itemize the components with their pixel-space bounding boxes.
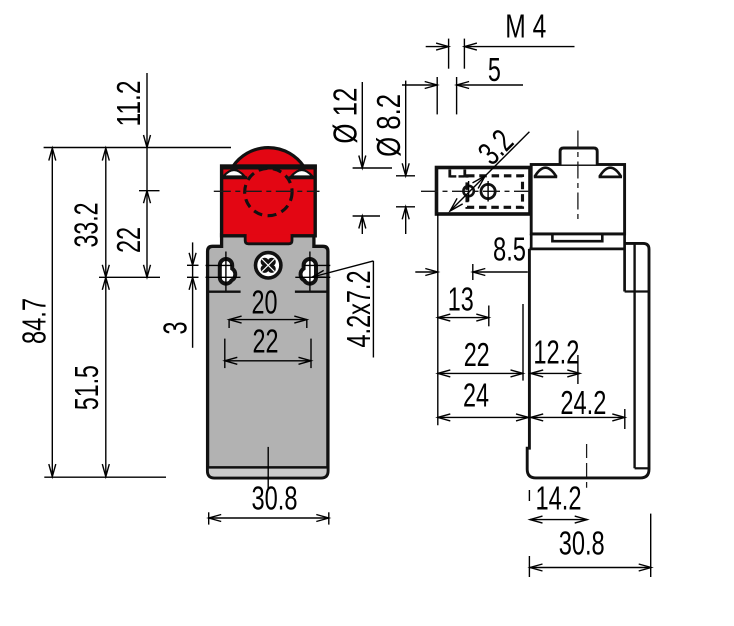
dimension 5 [402,84,437,86]
lever dashed slot [467,176,523,208]
ear bottom line left [208,291,241,293]
svg-text:30.8: 30.8 [559,525,605,562]
side head rect [531,165,624,234]
dimension 22 side [438,372,523,374]
label 4.2x7.2 leader [313,261,374,277]
label 3.2 leader [450,132,529,211]
svg-text:8.5: 8.5 [493,231,526,268]
mounting slot left [220,259,235,284]
side bottom centerline [586,444,588,488]
svg-text:13: 13 [448,281,474,318]
svg-text:22: 22 [110,227,147,253]
dimension 12.2 [531,372,580,374]
svg-text:12.2: 12.2 [533,334,579,371]
head lens cutout right [291,170,312,176]
conduit inner edge [633,243,635,468]
bottom extension line [44,476,166,478]
dimension 30.8 front [209,517,329,519]
side body top edge [529,247,625,250]
head lens bottom line left [222,176,247,179]
lever arm body [437,168,531,215]
dimension 24.2 [531,416,625,418]
svg-text:51.5: 51.5 [68,365,105,410]
M4 hole marks [448,170,451,178]
dimension 13 [438,317,489,319]
dimension 22 front left [144,191,151,204]
svg-text:22: 22 [464,336,490,373]
red tab [245,234,292,244]
front body silhouette [208,235,328,478]
screw cross [261,258,269,266]
dashed roller circle [245,168,292,215]
slot left crosshair horizontal upper [206,264,233,266]
dimension 30.8 side [530,567,651,569]
side lens arc left [535,168,557,177]
dimension 20 [229,319,307,321]
screw head [256,253,281,278]
svg-text:33.2: 33.2 [68,203,105,248]
dimension Ø12 [361,82,363,168]
dimension 24 [438,416,529,418]
side head centerline [577,131,579,223]
svg-text:22: 22 [253,323,279,360]
svg-text:14.2: 14.2 [536,480,582,517]
side body outline [527,243,649,478]
top extension line [44,147,231,149]
dimension 14.2 [530,519,587,521]
slot right crosshair vertical [309,252,311,291]
dimension 11.2 [146,73,148,277]
conduit seam top [625,290,649,292]
head lens bottom line right [289,176,314,179]
slot left crosshair horizontal lower [206,276,241,278]
ear bottom line right [295,291,328,293]
side lens arc right [599,168,621,177]
svg-text:4.2x7.2: 4.2x7.2 [340,271,377,348]
conduit seam bottom [635,467,649,469]
side plunger tab [560,148,597,165]
side head joint [531,234,624,241]
side collar sides [530,234,533,249]
dimension Ø8.2 [405,81,407,176]
head lens cutout left [223,170,244,176]
red head dome [233,148,304,167]
dimension 3 [192,242,194,347]
svg-text:Ø 12: Ø 12 [327,88,364,144]
dimension 22 front [225,360,311,362]
slot right crosshair horizontal upper [304,264,331,266]
dimension 33.2 [105,148,107,478]
mounting slot right [301,259,316,284]
head top border emphasis [220,165,317,169]
svg-text:11.2: 11.2 [110,81,147,127]
svg-text:24.2: 24.2 [560,384,606,421]
svg-text:3: 3 [157,322,194,335]
svg-text:Ø 8.2: Ø 8.2 [370,94,407,157]
front body bottom band [208,467,328,478]
svg-text:M 4: M 4 [505,8,546,45]
svg-text:5: 5 [488,51,501,88]
red head rect [222,166,316,236]
lever big hole [481,184,495,198]
red patch over head bottom center [247,232,290,239]
slot left crosshair vertical [225,252,227,291]
dimension 51.5 [102,277,109,290]
svg-text:30.8: 30.8 [252,480,298,517]
svg-text:24: 24 [463,377,489,414]
side reference line [437,214,439,425]
lever small hole [463,186,473,196]
slot right crosshair horizontal lower [295,276,330,278]
dimension M4 [426,46,449,48]
svg-text:20: 20 [252,284,278,321]
dimension 8.5 [415,271,438,273]
svg-text:84.7: 84.7 [16,298,53,344]
head centerline [214,190,320,192]
lever centerline [421,190,534,192]
front bottom center mark [267,447,269,489]
dimension 84.7 [51,148,53,478]
